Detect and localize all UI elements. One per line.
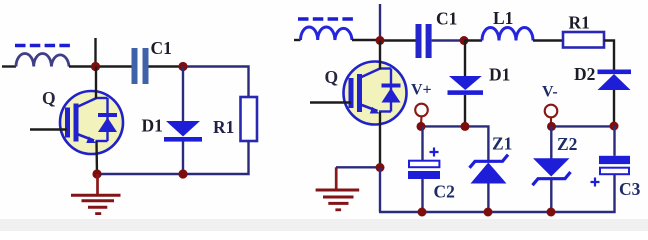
wire: C1 to node B <box>149 65 184 67</box>
svg-text:Q: Q <box>325 67 339 87</box>
wire: ground branch horizontal <box>336 166 380 168</box>
svg-text:Z1: Z1 <box>492 134 512 154</box>
wire: node C to capacitor C1 (right) <box>380 39 416 41</box>
node B junction <box>178 62 187 71</box>
wire: V- rail to node F <box>551 125 614 127</box>
svg-text:Z2: Z2 <box>557 134 577 154</box>
wire: left lead of input inductor <box>2 65 16 67</box>
junction: V+ node <box>417 122 426 131</box>
capacitor C1 (right) <box>416 24 432 58</box>
dashed line over input inductor <box>15 44 70 47</box>
inductor (input coil, right) <box>301 27 353 40</box>
svg-text:V-: V- <box>542 84 558 101</box>
wire: Z1 to bottom bus <box>487 184 489 213</box>
capacitor C3 (electrolytic) <box>591 156 631 187</box>
transistor Q (IGBT, right) <box>344 62 407 125</box>
transistor Q (IGBT) <box>60 91 123 154</box>
zener Z1 <box>470 155 509 184</box>
wire: stub above node C <box>379 4 381 40</box>
wire: R1 bottom to bottom bus <box>97 141 249 174</box>
wire: V- node down to Z2 <box>550 126 552 159</box>
wire: node A to capacitor C1 <box>96 65 132 67</box>
node C junction <box>376 36 385 45</box>
wire: left lead of input inductor (right) <box>294 39 301 41</box>
node D junction <box>460 36 469 45</box>
wire: gate lead of Q (right) <box>310 101 351 103</box>
wire: node B down to diode D1 <box>182 67 184 122</box>
wire: D1 to bottom bus <box>182 142 184 175</box>
wire: gate lead of Q <box>30 128 67 130</box>
background bottom gray band <box>0 219 648 231</box>
wire: node B to top-right corner and down to R1 <box>183 67 249 98</box>
junction: C2 at bottom bus <box>418 208 427 217</box>
wire: node D to inductor L1 <box>464 39 482 41</box>
wire: emitter ground node to bottom bus <box>379 168 381 213</box>
wire: V+ node down to C2 <box>421 126 423 160</box>
svg-text:D1: D1 <box>489 65 510 85</box>
wire: C2 to bottom bus <box>421 179 423 212</box>
svg-text:R1: R1 <box>213 117 234 137</box>
junction: D1 at bottom bus <box>178 169 187 178</box>
dashed line over input inductor (right) <box>298 17 353 20</box>
svg-text:D2: D2 <box>574 64 595 84</box>
svg-text:C3: C3 <box>619 179 641 199</box>
wire: inductor to node C <box>352 39 380 41</box>
junction: V- node <box>547 122 556 131</box>
inductor (input coil) <box>16 54 69 67</box>
wire: C1 to node D <box>432 39 464 41</box>
junction: Z1 at bottom bus <box>484 208 493 217</box>
wire: V+ rail to Z1 <box>420 126 488 162</box>
svg-text:D1: D1 <box>142 116 163 136</box>
wire: collector of Q from node A <box>95 67 97 99</box>
wire: L1 to resistor R1 (right) <box>533 39 563 41</box>
wire: emitter of Q to ground node <box>95 141 98 174</box>
resistor R1 (right) <box>563 32 604 48</box>
svg-text:C1: C1 <box>151 38 172 58</box>
ground (right) <box>316 167 360 210</box>
wire: inductor to node A <box>69 65 96 67</box>
svg-text:C1: C1 <box>436 9 457 29</box>
svg-text:C2: C2 <box>434 182 455 202</box>
node A junction <box>91 62 100 71</box>
svg-text:V+: V+ <box>411 82 432 99</box>
wire: emitter of Q (right) down to ground node <box>379 112 381 168</box>
svg-text:L1: L1 <box>493 8 513 28</box>
terminal V+ <box>415 104 428 125</box>
wire: Z2 to bottom bus <box>550 179 552 212</box>
ground <box>71 174 121 214</box>
zener Z2 <box>533 158 571 185</box>
capacitor C2 (electrolytic) <box>408 148 440 180</box>
junction: node F (D2 bottom) <box>610 122 619 131</box>
wire: node F down to C3 <box>613 126 615 156</box>
wire: collector of Q (right) from node C <box>379 41 381 70</box>
resistor R1 <box>241 97 258 141</box>
inductor L1 <box>482 28 533 41</box>
diode D1 (right) <box>448 76 484 95</box>
junction: node E (D1 bottom) <box>461 122 470 131</box>
wire: stub above node A <box>94 38 96 67</box>
diode D1 <box>164 121 202 142</box>
svg-text:R1: R1 <box>569 13 590 33</box>
diode D2 <box>598 70 632 91</box>
wire: node D down to diode D1 (right) <box>464 41 466 77</box>
wire: D2 to node F <box>613 90 615 126</box>
junction: Z2 at bottom bus <box>547 208 556 217</box>
junction: ground node on emitter line <box>376 163 385 172</box>
junction: emitter/ground node <box>92 169 101 178</box>
terminal V- <box>545 105 558 125</box>
capacitor C1 <box>132 48 149 84</box>
wire: C3 to bottom bus corner <box>379 175 615 213</box>
wire: R1 to top-right corner down to D2 <box>604 41 614 70</box>
wire: D1 to node E <box>464 95 466 126</box>
svg-text:Q: Q <box>42 88 56 108</box>
